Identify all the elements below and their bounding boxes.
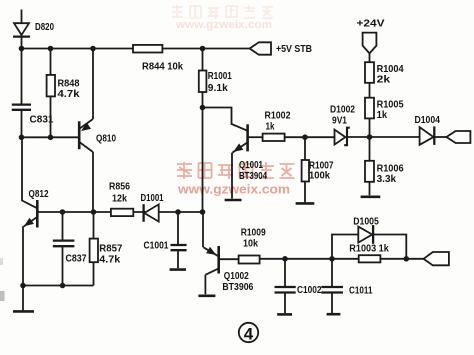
svg-text:Q810: Q810 — [96, 134, 116, 145]
svg-text:12k: 12k — [112, 194, 127, 205]
svg-text:4.7k: 4.7k — [58, 89, 80, 100]
capacitor C1001 — [171, 212, 187, 268]
svg-text:D1005: D1005 — [353, 216, 379, 227]
watermark top chinese — [172, 5, 273, 19]
transistor Q1002 — [203, 212, 239, 294]
svg-text:C1001: C1001 — [144, 241, 169, 252]
capacitor C1002 — [275, 259, 296, 313]
wire base row y212 — [38, 211, 203, 213]
resistor R1002 — [263, 134, 335, 141]
wire D1005 branch — [332, 235, 406, 259]
svg-text:R848: R848 — [58, 79, 80, 90]
svg-text:R1005: R1005 — [377, 100, 404, 111]
svg-text:R1002: R1002 — [265, 111, 291, 122]
ground C1011 — [327, 313, 341, 316]
page number circle 4 — [239, 323, 258, 344]
watermark middle chinese — [177, 162, 295, 179]
svg-text:Q812: Q812 — [29, 189, 49, 200]
ground Q812 — [13, 286, 34, 312]
wire top rail +5V — [22, 48, 250, 50]
svg-text:+24V: +24V — [357, 18, 385, 29]
resistor R1004 — [365, 62, 374, 97]
svg-text:10k: 10k — [243, 239, 258, 250]
svg-text:D1001: D1001 — [141, 193, 164, 204]
svg-text:R1004: R1004 — [377, 64, 404, 75]
svg-text:9.1k: 9.1k — [208, 83, 228, 94]
wire ground row bottom left — [23, 285, 94, 287]
svg-text:4: 4 — [244, 325, 254, 344]
wire left column D820/C831 — [21, 10, 23, 138]
svg-text:4.7k: 4.7k — [99, 255, 120, 266]
wire Q812 collector from node — [22, 137, 37, 208]
svg-text:R1001: R1001 — [208, 71, 232, 82]
capacitor C837 — [53, 212, 75, 286]
resistor R1005 — [365, 98, 374, 137]
resistor R848 — [47, 49, 55, 138]
scan smudge left edge — [0, 291, 5, 301]
svg-text:100k: 100k — [309, 171, 330, 182]
resistor R844 — [133, 45, 162, 53]
tag +5V STB — [250, 42, 271, 54]
svg-text:Q1002: Q1002 — [224, 271, 249, 282]
ground Q1002 collector — [198, 294, 215, 297]
svg-text:D1002: D1002 — [330, 105, 355, 116]
transistor Q812 — [23, 200, 37, 286]
resistor R1009 — [239, 256, 424, 264]
ground R1006 — [361, 196, 381, 199]
tag output bottom — [424, 252, 449, 265]
node dots — [19, 46, 409, 289]
tag output right — [446, 131, 470, 143]
ground C1002 — [277, 313, 292, 316]
ground C1001 — [170, 268, 186, 271]
svg-text:www.gzweix.com: www.gzweix.com — [177, 183, 290, 197]
transistor Q810 — [79, 49, 93, 213]
svg-text:9V1: 9V1 — [332, 116, 347, 127]
svg-text:R1003 1k: R1003 1k — [349, 244, 389, 255]
svg-text:C1002: C1002 — [297, 285, 322, 296]
svg-text:D820: D820 — [35, 22, 54, 33]
svg-text:C1011: C1011 — [349, 286, 373, 297]
svg-text:R857: R857 — [99, 244, 122, 255]
svg-text:R1006: R1006 — [377, 164, 404, 175]
capacitor C1011 — [321, 259, 343, 313]
resistor R1003 — [359, 255, 381, 262]
svg-text:www.gzweix.com: www.gzweix.com — [175, 19, 272, 31]
svg-text:R844 10k: R844 10k — [142, 62, 183, 73]
diode D1004 — [370, 126, 447, 144]
diode D820 — [13, 23, 30, 36]
resistor R857 — [90, 212, 98, 286]
tag +24V — [363, 33, 377, 63]
resistor R1007 — [302, 137, 309, 202]
ground Q1001 emitter — [225, 199, 242, 202]
diode D1005 — [358, 225, 373, 244]
capacitor C831 — [12, 105, 31, 110]
zener diode D1002 — [335, 128, 370, 146]
svg-text:C837: C837 — [66, 254, 87, 265]
diode D1001 — [144, 204, 159, 222]
svg-text:+5V STB: +5V STB — [276, 44, 312, 55]
svg-text:D1004: D1004 — [415, 115, 441, 126]
wire Q810 base — [22, 136, 79, 138]
svg-text:1k: 1k — [266, 122, 275, 133]
ground R1007 — [296, 202, 315, 205]
resistor R856 — [111, 209, 133, 216]
svg-text:BT3906: BT3906 — [222, 282, 253, 293]
svg-text:1k: 1k — [377, 110, 388, 121]
svg-text:R856: R856 — [109, 182, 130, 193]
resistor R1006 — [365, 137, 374, 195]
transistor Q1001 — [203, 108, 263, 199]
svg-text:3.3k: 3.3k — [377, 174, 397, 185]
resistor R1001 — [199, 49, 207, 213]
svg-text:R1009: R1009 — [241, 228, 266, 239]
svg-text:2k: 2k — [377, 75, 391, 86]
